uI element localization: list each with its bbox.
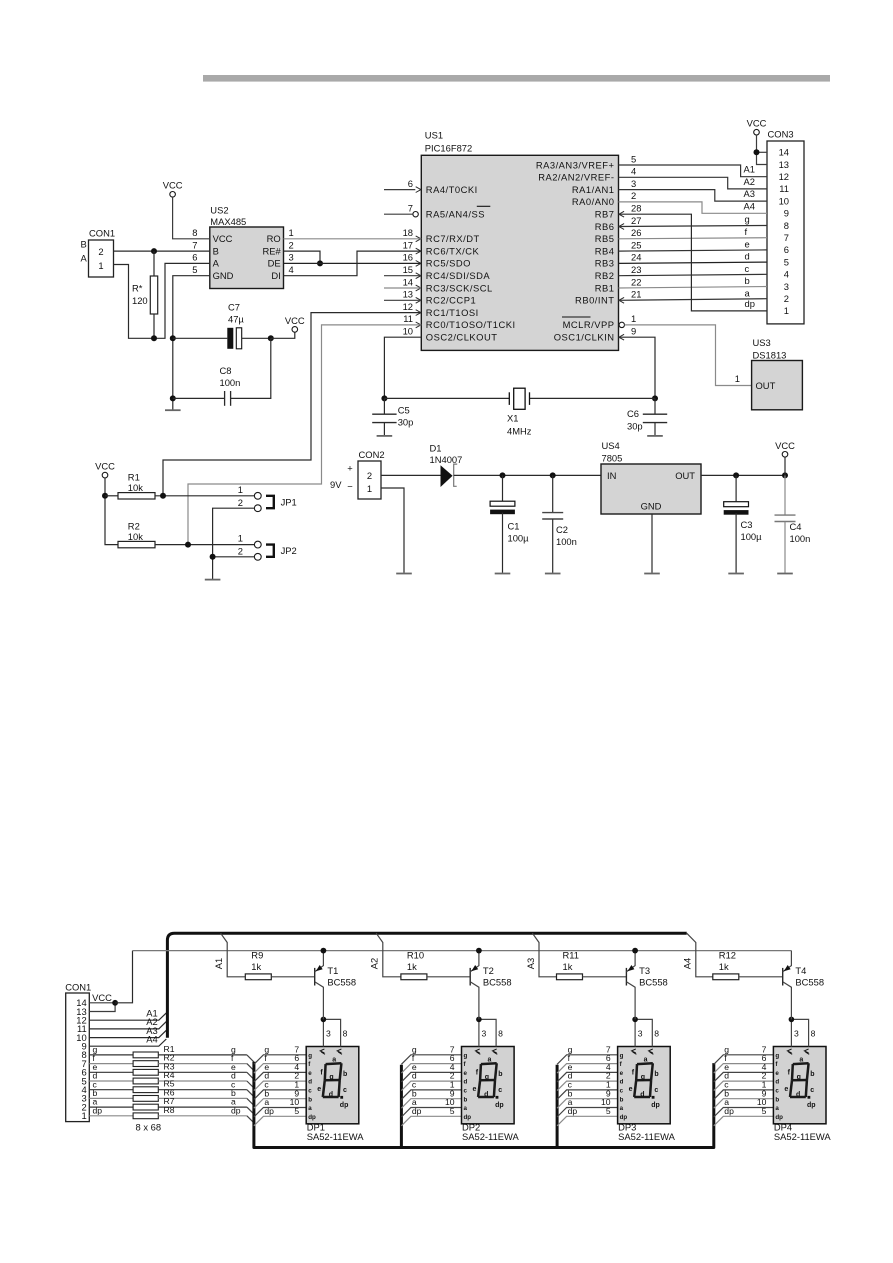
svg-text:2: 2 [631,190,636,201]
segment letter b (after CON1) [93,1088,98,1098]
connector CON3 [767,129,804,324]
junction VCC CON3 [754,149,760,155]
wire US1 to CON3 net A4 [619,202,768,213]
svg-text:8: 8 [498,1028,503,1038]
svg-text:RC0/T1OSO/T1CKI: RC0/T1OSO/T1CKI [426,319,516,330]
wire segment c into DP1 riser [247,1090,254,1097]
segment letter d (before riser) [231,1071,236,1081]
capacitor C8 body [173,338,271,406]
display DP4 body [773,1047,826,1124]
wire RC1 (pin12) to JP1 [163,313,421,496]
DP4 pin number 6 [762,1053,767,1063]
svg-text:IN: IN [607,470,616,481]
wire US1 to CON3 net g [619,226,768,227]
svg-text:d: d [796,1092,800,1099]
node A2 label (bottom left) [146,1016,157,1027]
svg-text:R1: R1 [128,472,140,483]
ground (C2) [545,573,561,575]
jumper JP1 pin2 pad [254,505,261,512]
wire riser to DP3 pin 1 [557,1090,618,1100]
svg-text:T2: T2 [483,965,494,976]
wire riser to DP3 pin 9 [557,1099,618,1109]
svg-text:g: g [775,1052,779,1059]
svg-text:8: 8 [343,1028,348,1038]
resistor network R1 body [89,1052,247,1058]
resistor R11 body [557,974,583,980]
wire riser to DP3 pin 4 [557,1072,618,1082]
svg-text:RB2: RB2 [595,270,615,281]
svg-text:X1: X1 [507,413,518,424]
wire US1 to CON3 net d [619,262,768,263]
svg-text:dp: dp [340,1102,349,1109]
US2 pin numbers [192,227,293,275]
svg-text:3: 3 [631,178,636,189]
svg-text:8: 8 [784,220,789,231]
svg-text:24: 24 [631,252,641,263]
node A4 label (top) [744,200,755,211]
wire riser to DP3 pin 2 [557,1081,618,1091]
resistor R2 label [128,520,143,542]
wire riser to DP3 pin 5 [557,1116,618,1126]
junction C1 [500,472,506,478]
svg-text:c: c [343,1087,347,1094]
wire VCC to US2.VCC [173,197,210,239]
wire DP4 pins 3/8 [791,1019,808,1046]
segment letter b (before riser) [231,1088,236,1098]
svg-text:dp: dp [495,1102,504,1109]
svg-text:11: 11 [779,183,789,194]
resistor R5 label [164,1079,175,1089]
jumper JP2 pin2 pad [254,553,261,560]
wire riser to DP2 pin 5 [401,1116,461,1126]
segment letter dp (before riser) [231,1105,241,1115]
svg-text:e: e [745,238,750,249]
DP1 pin number 9 [294,1088,299,1098]
wire crystal row right [530,397,656,399]
svg-text:VCC: VCC [92,992,112,1003]
segment letter e (DP3 fan) [568,1062,573,1072]
wire riser to DP4 pin 1 [714,1090,774,1100]
bus riser DP2 (thick) [400,1065,403,1148]
node A1 label (rotated) [213,958,224,969]
svg-text:RB1: RB1 [595,282,615,293]
VCC symbol (CON3) [747,118,767,136]
crystal X1 label [507,413,532,437]
svg-text:15: 15 [403,264,413,275]
resistor R10 label [407,950,424,973]
segment letter c (DP4 fan) [724,1080,729,1090]
svg-text:5: 5 [631,153,636,164]
op-amp U4 (7805 regulator body) [601,440,701,514]
resistor network R5 body [89,1087,247,1093]
svg-text:dp: dp [807,1102,816,1109]
svg-text:BC558: BC558 [327,977,356,988]
segment letter a (DP3 fan) [568,1097,573,1107]
transistor T3 label [639,965,668,988]
wire CON1.9 net A4 to bus [89,1039,166,1046]
capacitor C3 label [741,519,763,542]
svg-text:4: 4 [289,264,294,275]
svg-text:A2: A2 [369,958,380,969]
wire US1 to CON3 net A3 [619,190,768,202]
display DP2 body [462,1047,515,1124]
svg-text:OSC1/CLKIN: OSC1/CLKIN [554,332,615,343]
junction RE#/DE [317,260,323,266]
resistor R4 label [164,1070,175,1080]
transistor T3 body [626,951,635,1020]
svg-text:a: a [745,288,751,299]
US1 pin 7 inversion bubble [413,212,418,217]
svg-text:JP1: JP1 [281,497,297,508]
DP1 pin number 6 [294,1053,299,1063]
svg-text:2: 2 [98,246,103,257]
svg-text:R11: R11 [563,950,580,961]
segment letter dp (DP3 fan) [568,1106,578,1116]
svg-text:R8: R8 [164,1105,175,1115]
node A3 label (rotated) [525,958,536,969]
DP4 pin number 5 [762,1106,767,1116]
node a label (top) [745,288,751,299]
svg-text:d: d [745,251,750,262]
US1 right pin numbers [631,153,641,336]
DP1 pin number 4 [294,1062,299,1072]
US1 pin 1 (MCLR) bubble [619,322,624,327]
svg-text:RB4: RB4 [595,245,615,256]
svg-text:3: 3 [794,1028,799,1038]
segment letter e (before riser) [231,1062,236,1072]
svg-text:d: d [329,1092,333,1099]
resistor R2 body [118,541,155,547]
svg-text:17: 17 [403,239,413,250]
svg-text:27: 27 [631,215,641,226]
svg-text:T4: T4 [795,965,806,976]
svg-text:dp: dp [568,1106,578,1116]
wire US1 to CON3 net c [619,274,768,275]
svg-text:D1: D1 [430,443,442,454]
svg-text:B: B [213,245,219,256]
op-amp U2 (MAX485 body) [210,205,284,289]
DP1 pin number 1 [294,1080,299,1090]
wire riser to DP4 pin 4 [714,1072,774,1082]
svg-text:14: 14 [403,276,413,287]
junction R1 left [102,493,108,499]
wire riser to DP1 pin 6 [254,1064,306,1074]
svg-text:US4: US4 [602,440,620,451]
svg-text:e: e [629,1086,633,1093]
segment letter e (DP4 fan) [724,1062,729,1072]
svg-text:RC6/TX/CK: RC6/TX/CK [426,245,480,256]
svg-text:US3: US3 [753,337,771,348]
wire segment d into DP1 riser [247,1081,254,1088]
wire R10 to T2 base [427,976,470,978]
DP4 pin number 2 [762,1071,767,1081]
wire US1 to CON3 net e [619,250,768,251]
segment letter g (after CON1) [93,1045,98,1055]
segment letter b (DP1 fan) [264,1088,269,1098]
capacitor C2 label [556,524,577,547]
svg-text:d: d [464,1079,468,1086]
capacitor C1 label [508,521,530,544]
DP1 pin number 5 [294,1106,299,1116]
junction C2 [550,472,556,478]
svg-text:dp: dp [745,298,755,309]
svg-text:2: 2 [289,239,294,250]
resistor network R2 body [89,1061,247,1067]
svg-text:c: c [464,1088,468,1095]
wire MCLR to US3.OUT [625,325,752,386]
svg-text:C4: C4 [790,521,802,532]
svg-text:g: g [485,1074,489,1081]
svg-text:dp: dp [464,1114,472,1121]
wire segment b into DP1 riser [247,1098,254,1105]
svg-text:c: c [498,1087,502,1094]
capacitor C4 label [790,521,811,544]
svg-text:SA52-11EWA: SA52-11EWA [307,1131,365,1142]
svg-text:RO: RO [267,233,281,244]
wire DP1 pins 3/8 [323,1019,340,1046]
svg-text:2: 2 [238,546,243,557]
svg-text:a: a [464,1105,468,1112]
jumper JP1 label [281,497,297,508]
svg-text:100n: 100n [556,536,577,547]
junction R1/RC1 [160,493,166,499]
svg-text:VCC: VCC [775,440,795,451]
junction C3 [733,472,739,478]
transistor T1 body [315,951,324,1020]
DP3 pin number 5 [606,1106,611,1116]
svg-text:RB5: RB5 [595,233,615,244]
svg-text:RA4/T0CKI: RA4/T0CKI [426,184,478,195]
resistor R3 label [164,1061,175,1071]
svg-text:BC558: BC558 [483,977,512,988]
capacitor C8 label [220,365,241,388]
segment letter c (DP1 fan) [264,1080,269,1090]
svg-text:9: 9 [631,326,636,337]
wire R9 to T1 base [271,976,314,978]
segment letter c (DP3 fan) [568,1080,573,1090]
svg-text:e: e [308,1070,312,1077]
svg-text:8 x 68: 8 x 68 [136,1122,162,1133]
svg-text:c: c [810,1087,814,1094]
display DP1 label [307,1122,365,1143]
svg-text:28: 28 [631,203,641,214]
svg-text:4: 4 [631,166,636,177]
svg-text:C1: C1 [508,521,520,532]
junction DP2 pin3 [476,1017,482,1023]
capacitor C6 label [627,408,643,431]
svg-text:1: 1 [784,305,789,316]
svg-text:RE#: RE# [262,245,281,256]
resistor R* vertical body [150,251,157,338]
svg-text:R12: R12 [719,950,736,961]
DP3 pin number 2 [606,1071,611,1081]
node B label [81,239,87,250]
segment letter b (DP2 fan) [412,1088,417,1098]
wire riser to DP2 pin 10 [401,1108,461,1118]
segment letter f (DP4 fan) [724,1053,727,1063]
svg-text:DS1813: DS1813 [753,349,787,360]
wire JP2.2 to ground [213,557,255,579]
DP3 pin number 10 [601,1097,611,1107]
svg-text:CON3: CON3 [768,129,794,140]
jumper JP2 bracket [266,545,274,557]
svg-text:g: g [308,1052,312,1059]
wire riser to DP1 pin 1 [254,1090,306,1100]
wire riser to DP1 pin 10 [254,1108,306,1118]
svg-text:A3: A3 [525,958,536,969]
JP1 pin numbers [238,484,243,508]
wire US1 to CON3 net a [619,299,768,301]
segment letter a (DP1 fan) [264,1097,269,1107]
svg-text:b: b [810,1071,814,1078]
node A label [81,253,88,264]
wire US1 pin 15 stub [384,275,421,277]
display DP4 label [774,1122,832,1143]
wire VCC rail (displays) [133,950,792,952]
jumper JP2 label [281,545,297,556]
svg-text:OUT: OUT [675,470,695,481]
transistor T1 label [327,965,356,988]
VCC symbol (output) [775,440,795,457]
capacitor C5 label [398,404,414,427]
segment letter a (before riser) [231,1097,236,1107]
svg-text:RC3/SCK/SCL: RC3/SCK/SCL [426,282,493,293]
svg-text:1: 1 [367,483,372,494]
VCC symbol (US2 supply) [163,180,183,198]
svg-text:MAX485: MAX485 [210,216,246,227]
svg-text:RB7: RB7 [595,209,615,220]
DP4 pin number 9 [762,1088,767,1098]
op-amp U1 (PIC16F872 MCU body) [416,130,624,351]
ground (CON2) [396,573,412,575]
svg-text:1N4007: 1N4007 [430,454,463,465]
svg-text:47µ: 47µ [228,314,244,325]
svg-text:RC1/T1OSI: RC1/T1OSI [426,307,479,318]
wire riser to DP4 pin 2 [714,1081,774,1091]
transistor T2 label [483,965,512,988]
wire RC0 (pin11) to JP2 [188,325,421,545]
svg-text:A4: A4 [744,200,755,211]
svg-text:100µ: 100µ [508,533,530,544]
svg-text:6: 6 [192,252,197,263]
wire US1 to CON3 net A1 [619,165,768,177]
resistor R10 body [401,974,427,980]
svg-text:100n: 100n [220,377,241,388]
US1 left pin numbers [403,178,413,337]
svg-text:14: 14 [76,997,86,1008]
junction DP4 pin3 [789,1017,795,1023]
capacitor C3 body [724,475,749,572]
wire D1 to US4.IN [454,474,601,476]
wire riser to DP4 pin 9 [714,1099,774,1109]
resistor R9 label [251,950,263,973]
svg-text:g: g [464,1052,468,1059]
svg-text:RC5/SDO: RC5/SDO [426,258,471,269]
wire riser to DP4 pin 6 [714,1064,774,1074]
svg-text:CON1: CON1 [89,228,115,239]
svg-text:BC558: BC558 [639,977,668,988]
svg-text:a: a [488,1057,492,1064]
segment letter dp (DP1 fan) [264,1106,274,1116]
svg-text:2: 2 [367,470,372,481]
svg-text:+: + [347,463,353,474]
connector CON1 (bottom) [65,982,91,1122]
wire US1 pin 6 stub [384,189,415,191]
wire CON2.1 to ground [381,488,404,573]
junction net A at R* bottom [151,335,157,341]
svg-text:8: 8 [654,1028,659,1038]
svg-text:OUT: OUT [756,380,776,391]
svg-text:3: 3 [638,1028,643,1038]
resistor R12 body [713,974,739,980]
ground (C4) [777,573,793,575]
wire riser to DP3 pin 6 [557,1064,618,1074]
segment letter f (after CON1) [93,1053,96,1063]
wire OSC1 down to crystal row [619,337,656,398]
capacitor C7 label [228,302,244,325]
wire R12 to T4 base [739,976,783,978]
wire R2 to JP2.1 [155,544,254,546]
svg-text:c: c [654,1087,658,1094]
svg-text:e: e [775,1070,779,1077]
svg-text:RA2/AN2/VREF-: RA2/AN2/VREF- [538,172,614,183]
svg-text:3: 3 [784,281,789,292]
wire R1 left stub [105,495,118,497]
junction DP3 pin3 [632,1017,638,1023]
JP2 pin numbers [238,533,243,557]
svg-text:6: 6 [408,178,413,189]
transistor T4 body [783,951,792,1020]
wire DE to RC5/SDO [284,262,422,264]
svg-text:23: 23 [631,264,641,275]
wire RO to RC7/RX/DT [284,238,422,240]
svg-text:g: g [620,1052,624,1059]
node g label (top) [745,214,750,225]
svg-text:1k: 1k [251,961,261,972]
svg-text:MCLR/VPP: MCLR/VPP [563,319,615,330]
svg-text:g: g [641,1074,645,1081]
segment letter c (after CON1) [93,1079,98,1089]
svg-text:c: c [775,1088,779,1095]
wire riser to DP3 pin 7 [557,1055,618,1065]
segment letter d (DP2 fan) [412,1071,417,1081]
wire R11 to T3 base [583,976,627,978]
svg-text:A: A [81,253,88,264]
svg-text:RA1/AN1: RA1/AN1 [572,184,615,195]
DP1 pin number 2 [294,1071,299,1081]
svg-text:d: d [484,1092,488,1099]
display DP3 label [618,1122,676,1143]
wire DP2 pins 3/8 [479,1019,496,1046]
node dp label (top) [745,298,755,309]
svg-text:g: g [745,214,750,225]
resistor network R7 body [89,1104,247,1110]
node A4 label (bottom left) [146,1034,157,1045]
node d label (top) [745,251,750,262]
wire riser to DP2 pin 4 [401,1072,461,1082]
wire segment a into DP1 riser [247,1107,254,1114]
svg-text:A3: A3 [744,188,755,199]
svg-text:SA52-11EWA: SA52-11EWA [618,1131,676,1142]
svg-text:RB6: RB6 [595,221,615,232]
svg-text:2: 2 [238,497,243,508]
segment letter g (DP2 fan) [412,1044,417,1054]
svg-text:RC4/SDI/SDA: RC4/SDI/SDA [426,270,491,281]
svg-text:PIC16F872: PIC16F872 [425,142,472,153]
svg-text:R2: R2 [128,520,140,531]
svg-text:c: c [620,1088,624,1095]
ground (C1) [495,573,511,575]
